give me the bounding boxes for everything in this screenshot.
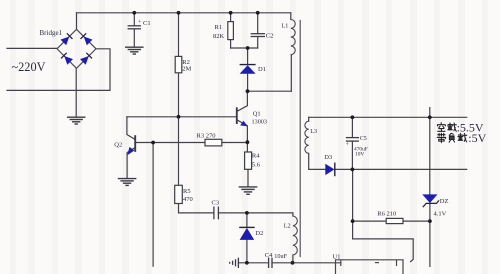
capacitor C5 [346,138,359,142]
bridge Bridge1 diamond [57,29,96,68]
bridge diode top-left [61,33,73,45]
wire AC top [7,47,57,49]
char zai [448,123,457,131]
wire L3 bottom lead [309,153,326,169]
capacitor C4 [269,258,272,268]
svg-text:470: 470 [183,196,193,203]
capacitor C3 [214,207,219,220]
svg-text:U1: U1 [333,253,341,260]
ground C1 [125,47,144,54]
bridge diode top-right [81,33,93,45]
svg-text:Bridge1: Bridge1 [40,29,63,37]
capacitor C1 [128,26,141,29]
resistor R1 [228,22,234,40]
svg-text:D1: D1 [258,66,266,73]
wire bridge bottom lead [75,68,77,117]
wire bridge top lead [76,13,78,30]
wire L2 bottom lead [292,255,294,263]
svg-text:C1: C1 [143,20,151,27]
wire D1 to L1 bottom [248,90,292,92]
svg-text:10V: 10V [355,151,364,157]
wire C4 to L2 bottom [272,262,293,264]
node R1C2-D1 [246,46,250,50]
svg-text:L1: L1 [282,23,289,30]
node rail-C1 [132,11,136,15]
ground bridge [67,117,86,124]
resistor R5 [175,185,183,203]
svg-text:C4: C4 [265,252,273,259]
transistor Q1 [237,107,248,126]
node R6 right [428,219,432,223]
node C3-D2-L2 [245,211,249,215]
IC U1 box [336,260,404,274]
svg-text:C2: C2 [266,33,274,40]
wire Q2 base down line [152,143,154,267]
node base [177,115,181,119]
transformer core [299,21,301,257]
diode D1 [240,65,256,74]
svg-text:5.6: 5.6 [252,162,261,169]
ground Q2 [118,179,137,186]
svg-text:L3: L3 [310,128,317,135]
wire Q2 emitter [127,148,135,179]
wire secondary top rail [309,116,467,118]
inductor L1 [291,20,295,55]
wire R3 row [135,142,247,144]
ground secondary (rotated) [230,258,239,268]
svg-text:~220V: ~220V [12,60,46,74]
svg-text:D3: D3 [324,154,332,161]
inductor L3 [305,121,309,153]
node Q2 base junction [151,141,155,145]
wire C3 to L2 top [218,212,293,214]
wire R5 bottom to C3 [179,204,214,213]
wire zener branch [429,108,431,267]
label loaded 5V (Chinese) [437,133,467,142]
wire L2 to U1 [293,262,341,264]
wire L1 top lead [290,13,292,20]
bridge diode bottom-left [61,53,73,65]
node rail-R1 [229,11,233,15]
svg-text:Q2: Q2 [114,141,122,148]
svg-text:DZ: DZ [440,198,449,205]
resistor R2 [175,56,182,72]
char zai2 [458,133,467,141]
node L2 bottom [291,261,295,265]
wire D2 branch [246,213,248,263]
wire D1 branch [247,48,249,91]
wire base node horizontal [127,116,237,118]
wire top rail [77,12,291,14]
inductor L2 [293,216,297,255]
wire D3 to C5 node [335,168,353,170]
char kong [438,123,446,132]
svg-text:R5: R5 [183,188,191,195]
node rail-zener [428,115,432,119]
resistor R4 [245,152,252,169]
wire Q1 emitter [237,120,248,142]
transistor Q2 [127,135,135,155]
node rail-R2 [177,11,181,15]
wire output minus row [352,168,466,170]
svg-text:R1: R1 [215,24,223,31]
svg-text:C5: C5 [360,136,367,142]
svg-text::5V: :5V [468,131,486,145]
node D2-gnd-C4 [245,261,249,265]
wire L1 bottom lead [290,55,292,91]
wire C2 leads [257,13,259,48]
wire R2 branch [178,13,180,186]
svg-text:L2: L2 [284,222,291,229]
ground R4 [239,187,258,194]
wire Q1 collector [237,91,248,111]
wire R4 leads [246,142,249,186]
capacitor C2 [251,34,265,37]
svg-text:R6 210: R6 210 [377,211,396,218]
svg-text:Q1: Q1 [253,110,261,117]
diode D3 [325,163,335,177]
wire R1-C2 junction [231,47,258,49]
zener DZ [422,194,439,207]
svg-text:R4: R4 [252,152,260,159]
resistor R6 [386,218,403,223]
wire L3 top lead [308,117,310,121]
wire R1 leads [230,13,232,48]
svg-text:13003: 13003 [252,119,267,126]
resistor R3 [205,139,222,146]
wire AC bottom [7,49,110,91]
node emitter-R3-R4 [246,140,250,144]
char fu [449,133,455,142]
wire Q2 collector [127,117,135,140]
wire secondary ground row [238,262,268,264]
wire step to U1 pin [353,221,414,262]
wire C1 lead [133,13,135,47]
bridge diode bottom-right [80,53,92,65]
wire L2 top lead [292,213,294,216]
svg-text:C3: C3 [212,199,220,206]
label no-load 5.5V (Chinese) [438,123,457,132]
wire C5 node down to R6 [352,169,354,221]
char dai [437,133,445,142]
svg-text:10uF: 10uF [274,253,287,260]
svg-text:R3 270: R3 270 [197,132,216,139]
wire C5 leads [351,117,353,169]
node rail-C2 [256,11,260,15]
diode D2 [239,227,254,240]
node rail-C5 [351,115,355,119]
node C5-D3 [351,168,355,172]
svg-text:D2: D2 [255,230,263,237]
svg-text:2M: 2M [182,66,191,73]
svg-text:4.1V: 4.1V [434,210,447,217]
node D1-L1-collector [246,89,250,93]
node R6 left [351,219,355,223]
svg-text:82K: 82K [213,33,225,40]
wire R6 leads [353,220,430,222]
